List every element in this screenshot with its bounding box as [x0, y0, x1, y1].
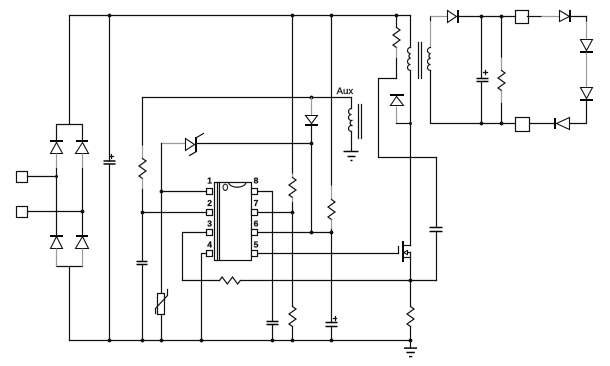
ground main [404, 341, 417, 357]
label pin 4 [207, 240, 212, 250]
connector J4 bottom [516, 118, 530, 132]
node J1-bridge junction [55, 175, 58, 178]
bridge diode D2 [76, 141, 89, 169]
svg-text:Aux: Aux [337, 86, 354, 97]
U1 pad pin 8 [252, 189, 258, 195]
U1 pad pin 1 [207, 189, 213, 195]
node C5 bottom [480, 122, 484, 126]
node pin6 resistor junction [330, 231, 334, 235]
transistor Q1 mosfet [399, 241, 411, 281]
node pin4 wire bottom rail [200, 339, 204, 343]
transformer T1 primary [408, 16, 411, 246]
node C3 bottom rail [271, 339, 275, 343]
resistor R6 upper [289, 16, 296, 213]
resistor R8 [328, 16, 335, 233]
svg-text:8: 8 [254, 176, 259, 186]
connector J3 top [516, 11, 529, 24]
zener diode VR1 [162, 134, 204, 156]
node pin6 diode junction [310, 231, 314, 235]
diode D7 clamp [390, 95, 411, 124]
node pin2 junction [141, 211, 145, 215]
node startup line top [291, 14, 295, 18]
bridge diode D1 [50, 141, 63, 169]
inductor L1 aux winding [349, 98, 352, 151]
capacitor C4 polarized [326, 233, 338, 341]
node clamp resistor top [395, 14, 399, 18]
node output cap top [480, 15, 484, 19]
node RT1 bottom rail [160, 339, 164, 343]
node output res top [500, 15, 504, 19]
wire zener cathode to aux diode [197, 143, 312, 145]
wire sense resistor feed [183, 280, 411, 282]
wire pin 5 gate [259, 253, 399, 255]
svg-text:2: 2 [207, 198, 212, 208]
resistor R5 load [498, 17, 505, 124]
wire bridge right column [82, 169, 84, 235]
wire J3 to D9 [528, 16, 560, 18]
wire pin 4 [202, 254, 207, 341]
wire J1 to bridge [28, 176, 57, 178]
node C1 bottom rail [108, 339, 112, 343]
aux core [359, 105, 362, 139]
wire clamp left branch [379, 79, 437, 158]
resistor R2 clamp [393, 16, 400, 79]
node R7 bottom rail [291, 339, 295, 343]
svg-text:5: 5 [254, 240, 259, 250]
wire pin 3 [183, 233, 207, 281]
node D7 anode to drain [409, 122, 412, 125]
input terminal J1 [17, 172, 28, 183]
ground aux [344, 152, 359, 161]
U1 pad pin 7 [252, 210, 258, 216]
node aux diode top [310, 96, 314, 100]
capacitor C1 [104, 16, 116, 341]
node vcc line top [330, 14, 334, 18]
node C4 bottom rail [330, 339, 334, 343]
label pin 8 [254, 176, 259, 186]
node pin1 junction [160, 190, 164, 194]
bridge diode D4 [76, 236, 89, 267]
wire pin 8 [259, 192, 273, 321]
node R5 bottom [500, 122, 504, 126]
svg-text:6: 6 [254, 219, 259, 229]
label pin 3 [207, 219, 212, 229]
bridge diode D3 [50, 236, 63, 267]
diode D11 [570, 88, 594, 124]
wire bridge left column [56, 169, 58, 235]
thermistor RT1 [156, 290, 168, 341]
capacitor C2 [137, 262, 148, 341]
diode D6 aux rectifier [305, 98, 318, 233]
svg-text:7: 7 [254, 198, 259, 208]
wire zener anode branch [161, 144, 163, 294]
diode D9 [560, 10, 587, 22]
transformer T1 core [419, 43, 422, 79]
U1 pad pin 5 [252, 251, 258, 257]
label pin 1 [207, 176, 212, 186]
label pin 2 [207, 198, 212, 208]
wire right branch upper [586, 17, 588, 40]
resistor R1 [139, 98, 146, 261]
wire left rail upper [69, 16, 71, 125]
svg-text:4: 4 [207, 240, 212, 250]
U1 pad pin 4 [207, 251, 213, 257]
capacitor C3 [267, 322, 279, 341]
diode D8 output rectifier [431, 10, 516, 23]
U1 pad pin 3 [207, 230, 213, 236]
node pin7 junction [291, 211, 295, 215]
wire top rail [70, 15, 411, 17]
U1 pin1 indicator 0 [223, 184, 228, 190]
wire J2 to bridge [28, 211, 83, 213]
wire pin 6 [259, 232, 332, 234]
wire pin 1 [162, 191, 207, 193]
node C2 bottom rail [141, 339, 145, 343]
diode D12 return [530, 118, 570, 130]
input terminal J2 [17, 207, 28, 218]
wire vcc feed [143, 97, 352, 99]
wire left rail lower [57, 267, 83, 341]
svg-text:3: 3 [207, 219, 212, 229]
capacitor C6 snubber [411, 158, 443, 281]
resistor R7 lower [289, 213, 296, 341]
op-amp U1 body [215, 183, 252, 261]
label pin 7 [254, 198, 259, 208]
node rail right end [409, 339, 413, 343]
wire bottom rail [70, 340, 411, 342]
node source junction [409, 279, 413, 283]
label pin 5 [254, 240, 259, 250]
node zener wire to diode line [310, 142, 314, 146]
node bulk cap top [108, 14, 112, 18]
wire pin 7 [259, 212, 293, 214]
capacitor C5 output [477, 17, 489, 124]
diode D10 [580, 40, 593, 88]
U1 pad pin 2 [207, 210, 213, 216]
resistor R3 [220, 277, 241, 284]
svg-text:1: 1 [207, 176, 212, 186]
U1 pad pin 6 [252, 230, 258, 236]
resistor R4 sense [407, 281, 414, 341]
node J2-bridge junction [81, 210, 85, 214]
wire bridge top bar [57, 125, 83, 142]
label pin 6 [254, 219, 259, 229]
transformer T1 secondary [428, 17, 516, 124]
wire pin 2 [143, 212, 207, 214]
